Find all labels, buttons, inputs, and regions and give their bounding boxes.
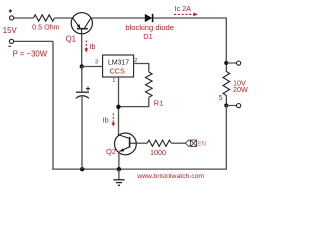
current arrow Ic [174, 13, 198, 17]
svg-text:0.5 Ohm: 0.5 Ohm [32, 23, 60, 32]
wire minus terminal to left rail [14, 40, 53, 42]
wire Q2 base to resistor [136, 142, 147, 144]
terminal load top [237, 61, 241, 65]
svg-text:Ib: Ib [103, 115, 109, 124]
node capacitor branch junction [80, 167, 84, 171]
svg-text:blocking diode: blocking diode [125, 23, 174, 32]
resistor 1000 [147, 140, 171, 146]
svg-text:3: 3 [95, 60, 98, 66]
terminal load bottom [237, 104, 241, 108]
capacitor C1 polarized [76, 87, 90, 99]
svg-text:CCS: CCS [110, 67, 125, 76]
terminal minus input [8, 39, 13, 46]
wire stub to top load terminal [226, 62, 236, 64]
svg-text:EN: EN [197, 141, 206, 148]
wire right vertical rail lower [225, 106, 227, 170]
wire capacitor branch upper [81, 67, 83, 92]
svg-text:Q1: Q1 [66, 35, 76, 44]
node load bottom junction [224, 103, 228, 107]
current arrow Ib Q1 [85, 41, 89, 53]
op-amp U1 LM317 box [103, 55, 134, 77]
wire Q1 collector to diode [91, 17, 145, 19]
wire resistor to Q1 emitter [54, 17, 72, 19]
wire Q1 base lead [81, 34, 83, 67]
node pin1 junction [116, 105, 120, 109]
ground [113, 169, 124, 185]
node emitter ground junction [117, 167, 121, 171]
svg-text:5: 5 [219, 93, 223, 102]
svg-text:Ib: Ib [90, 42, 96, 51]
wire Q2 emitter down [118, 153, 120, 170]
svg-text:Ic 2A: Ic 2A [175, 4, 192, 13]
resistor R1 [146, 72, 153, 97]
current arrow Ib Q2 [112, 113, 116, 126]
wire R1 bottom to pin1 node [120, 97, 149, 106]
svg-text:15V: 15V [3, 26, 18, 35]
wire resistor to EN port [171, 142, 185, 144]
resistor 5 ohm load [223, 65, 230, 103]
svg-text:1: 1 [112, 78, 115, 84]
diode D1 [145, 14, 153, 22]
terminal plus input [9, 9, 14, 20]
wire stub to bottom load terminal [226, 105, 236, 107]
svg-text:R1: R1 [154, 98, 163, 107]
wire LM317 pin 1 down to Q2 collector [118, 77, 120, 135]
transistor Q1 (PNP) [71, 13, 92, 34]
wire diode to top-right corner [153, 17, 226, 19]
port symbol EN [185, 140, 196, 147]
wire LM317 pin 2 to R1 [134, 64, 149, 73]
wire left vertical rail [52, 41, 54, 169]
node Q1 base junction [80, 64, 84, 68]
wire right vertical rail upper [225, 17, 227, 63]
svg-text:D1: D1 [143, 32, 152, 41]
svg-text:www.bristolwatch.com: www.bristolwatch.com [136, 173, 204, 180]
wire junction to LM317 pin 3 [82, 66, 103, 68]
svg-text:1000: 1000 [150, 148, 166, 157]
wire plus terminal to resistor [14, 17, 34, 19]
svg-text:Q2: Q2 [106, 147, 116, 156]
transistor Q2 (NPN) [115, 133, 137, 155]
svg-text:20W: 20W [233, 85, 248, 94]
svg-text:LM317: LM317 [108, 60, 129, 67]
node load top junction [224, 61, 228, 65]
wire bottom rail [52, 168, 227, 170]
resistor 0.5 Ohm [33, 15, 54, 21]
wire capacitor branch lower [81, 97, 83, 170]
svg-text:P = ~30W: P = ~30W [13, 50, 48, 59]
